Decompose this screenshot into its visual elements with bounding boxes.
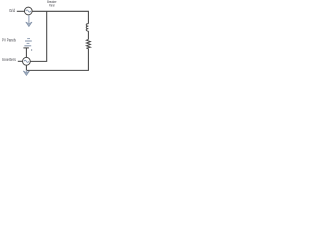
svg-text:Panel: Panel <box>49 3 55 7</box>
svg-text:PV Panels: PV Panels <box>2 37 16 42</box>
svg-text:Grid: Grid <box>9 8 15 13</box>
svg-text:Inverters: Inverters <box>2 57 16 62</box>
